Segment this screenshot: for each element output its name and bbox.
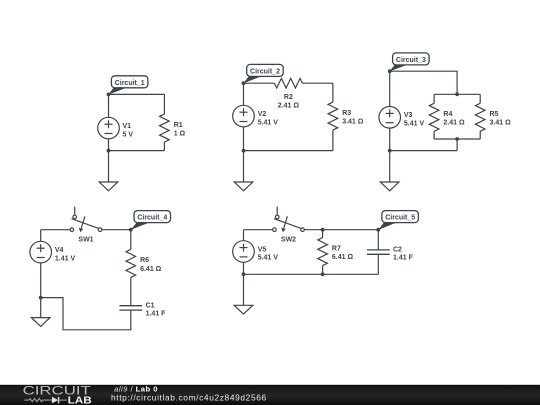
- resistor R2: [274, 78, 302, 88]
- label V5 value: [258, 246, 279, 261]
- resistor R1: [160, 94, 170, 150]
- svg-text:SW1: SW1: [78, 237, 93, 244]
- voltage source V5: [233, 241, 255, 263]
- svg-text:2.41 Ω: 2.41 Ω: [278, 102, 300, 109]
- wire ground lead circuit 4: [40, 298, 42, 318]
- svg-text:R5: R5: [490, 111, 499, 118]
- svg-text:2.41 Ω: 2.41 Ω: [443, 120, 465, 127]
- svg-text:5.41 V: 5.41 V: [258, 255, 279, 262]
- wire left branch circuit 3 (top): [389, 71, 391, 106]
- wire top rail circuit 1: [109, 93, 165, 95]
- wire parallel bottom rail circuit 3: [434, 138, 480, 140]
- node junction dot circuit 5 C2 top: [376, 228, 380, 232]
- svg-text:Circuit_2: Circuit_2: [250, 68, 280, 75]
- node label Circuit_3: [390, 53, 430, 72]
- ground (circuit 3): [380, 182, 399, 191]
- svg-text:R2: R2: [284, 94, 293, 101]
- svg-text:C2: C2: [393, 247, 402, 254]
- logo diode: [52, 397, 67, 404]
- label R1 value: [174, 122, 186, 138]
- wire bottom rail circuit 3: [390, 150, 457, 152]
- wire ground lead circuit 5: [243, 274, 245, 305]
- svg-text:Circuit_1: Circuit_1: [115, 80, 145, 87]
- resistor R6: [126, 230, 136, 306]
- ground (circuit 4): [31, 318, 50, 327]
- label R6 value: [140, 257, 162, 273]
- wire left branch circuit 5 (top): [243, 230, 245, 241]
- wire center drop circuit 3: [456, 139, 458, 151]
- wire ground lead circuit 1: [108, 151, 110, 182]
- node label Circuit_5: [378, 211, 418, 230]
- ground (circuit 5): [234, 305, 253, 314]
- wire ground lead circuit 2: [243, 151, 245, 182]
- svg-text:6.41 Ω: 6.41 Ω: [332, 254, 354, 261]
- svg-text:6.41 Ω: 6.41 Ω: [140, 266, 162, 273]
- svg-text:V2: V2: [258, 111, 267, 118]
- junction dot circuit 3 parallel top: [455, 92, 459, 96]
- svg-text:1.41 F: 1.41 F: [393, 255, 414, 262]
- svg-text:R7: R7: [332, 245, 341, 252]
- label R3 value: [342, 110, 364, 126]
- wire left branch circuit 2 (top): [243, 83, 245, 105]
- svg-text:V1: V1: [123, 123, 132, 130]
- wire R7 node to C2 node circuit 5: [323, 229, 379, 231]
- wire left branch circuit 4 (bottom): [40, 263, 42, 298]
- label V3 value: [404, 112, 425, 127]
- label R4 value: [443, 111, 465, 127]
- junction dot circuit 1 bottom: [107, 149, 111, 153]
- svg-text:3.41 Ω: 3.41 Ω: [490, 120, 512, 127]
- capacitor C2: [367, 230, 390, 275]
- resistor R4: [429, 94, 439, 139]
- label R7 value: [332, 245, 354, 261]
- wire switch to R7 node circuit 5: [304, 229, 322, 231]
- node junction dot circuit 1 top: [107, 93, 111, 97]
- node label Circuit_4: [131, 211, 171, 230]
- voltage source V4: [30, 241, 52, 263]
- label V1 value: [123, 123, 134, 138]
- label R2 value: [278, 94, 300, 110]
- svg-text:V5: V5: [258, 246, 267, 253]
- svg-text:Circuit_3: Circuit_3: [396, 57, 426, 64]
- ground (circuit 2): [234, 182, 253, 191]
- svg-text:C1: C1: [146, 302, 155, 309]
- wire bottom rail circuit 5: [244, 273, 379, 275]
- wire top rail circuit 5 left: [244, 229, 273, 231]
- switch SW2: [273, 207, 305, 233]
- wire left branch circuit 3 (bottom): [389, 128, 391, 151]
- wire top rail circuit 4 left: [41, 229, 70, 231]
- wire left branch circuit 2 (bottom): [243, 127, 245, 151]
- wire left branch circuit 4 (top): [40, 230, 42, 242]
- wire bottom rail circuit 2: [244, 150, 333, 152]
- junction dot circuit 4 left: [39, 296, 43, 300]
- svg-text:5 V: 5 V: [123, 131, 134, 138]
- wire top rail circuit 3: [390, 71, 457, 94]
- resistor R3: [328, 83, 338, 150]
- node junction dot circuit 3 top-left: [388, 69, 392, 73]
- voltage source V3: [379, 107, 401, 129]
- svg-text:5.41 V: 5.41 V: [258, 119, 279, 126]
- wire top rail circuit 2 left: [244, 82, 275, 84]
- wire parallel top rail circuit 3: [434, 93, 480, 95]
- label V4 value: [55, 247, 76, 262]
- svg-text:1.41 V: 1.41 V: [55, 255, 76, 262]
- wire left branch circuit 5 (bottom): [243, 262, 245, 274]
- svg-text:SW2: SW2: [281, 237, 296, 244]
- svg-text:1 Ω: 1 Ω: [174, 131, 186, 138]
- wire top rail circuit 2 right: [302, 82, 333, 84]
- ground (circuit 1): [99, 182, 118, 191]
- svg-text:http://circuitlab.com/c4u2z849: http://circuitlab.com/c4u2z849d2566: [111, 392, 267, 402]
- junction dot circuit 5 R7 top: [321, 228, 325, 232]
- switch SW1: [70, 207, 102, 233]
- svg-text:Circuit_5: Circuit_5: [385, 215, 415, 222]
- label R5 value: [490, 111, 512, 127]
- svg-text:R3: R3: [342, 110, 351, 117]
- node label Circuit_2: [243, 64, 283, 83]
- voltage source V1: [98, 117, 120, 139]
- junction dot circuit 3 parallel bottom: [455, 137, 459, 141]
- label V2 value: [258, 111, 279, 126]
- wire left branch circuit 1 (bottom): [108, 139, 110, 151]
- wire left branch circuit 1 (top): [108, 94, 110, 117]
- logo resistor zigzag: [24, 399, 52, 402]
- junction dot circuit 5 R7 bottom: [321, 272, 325, 276]
- resistor R7: [318, 230, 328, 275]
- svg-text:LAB: LAB: [68, 396, 92, 405]
- junction dot circuit 5 bottom left: [242, 272, 246, 276]
- svg-text:R4: R4: [443, 111, 452, 118]
- resistor R5: [475, 94, 485, 139]
- label C2 value: [393, 247, 414, 262]
- svg-text:V3: V3: [404, 112, 413, 119]
- junction dot circuit 3 bottom-left: [388, 149, 392, 153]
- node junction dot circuit 2 top: [242, 81, 246, 85]
- svg-text:1.41 F: 1.41 F: [146, 311, 167, 318]
- label C1 value: [146, 302, 167, 317]
- node junction dot circuit 4 top: [129, 228, 133, 232]
- svg-text:V4: V4: [55, 247, 64, 254]
- junction dot circuit 2 bottom: [242, 149, 246, 153]
- svg-text:5.41 V: 5.41 V: [404, 121, 425, 128]
- capacitor C1: [119, 306, 142, 310]
- svg-text:R6: R6: [140, 257, 149, 264]
- wire bottom rail circuit 1: [109, 150, 165, 152]
- wire switch to node circuit 4: [102, 229, 131, 231]
- voltage source V2: [233, 105, 255, 127]
- wire ground lead circuit 3: [389, 151, 391, 182]
- svg-text:R1: R1: [174, 122, 183, 129]
- svg-text:3.41 Ω: 3.41 Ω: [342, 119, 364, 126]
- node label Circuit_1: [108, 76, 148, 95]
- svg-text:Circuit_4: Circuit_4: [137, 215, 167, 222]
- wire C1 bottom loop circuit 4: [41, 298, 131, 330]
